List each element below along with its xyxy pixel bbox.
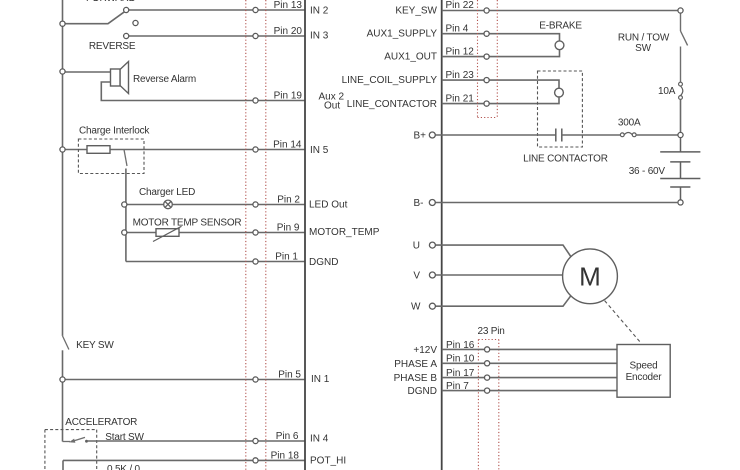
contact FORWARD: [124, 7, 129, 12]
svg-text:23 Pin: 23 Pin: [478, 326, 505, 337]
svg-text:MOTOR_TEMP: MOTOR_TEMP: [309, 227, 380, 238]
junction B+ bus: [678, 132, 683, 137]
svg-text:KEY_SW: KEY_SW: [395, 6, 437, 17]
svg-text:Pin 10: Pin 10: [446, 354, 475, 365]
svg-text:Pin 17: Pin 17: [446, 368, 475, 379]
svg-text:Pin 22: Pin 22: [446, 0, 475, 11]
svg-text:0.5K / 0: 0.5K / 0: [107, 464, 141, 470]
contactor main contact bars: [556, 129, 562, 142]
svg-text:Reverse Alarm: Reverse Alarm: [133, 74, 196, 85]
svg-text:Pin 21: Pin 21: [446, 93, 475, 104]
pin circle Pin22: [484, 8, 489, 13]
speed encoder box: [617, 345, 670, 398]
connector 23-pin dotted box lower: [478, 340, 498, 470]
svg-text:ACCELERATOR: ACCELERATOR: [65, 417, 137, 428]
switch RUN/TOW: [681, 13, 688, 82]
svg-text:B+: B+: [413, 131, 426, 142]
pin circle Pin16: [485, 347, 490, 352]
motor M: [563, 249, 618, 304]
pin circle Pin20: [253, 33, 258, 38]
LED D1 Charger LED: [164, 200, 173, 209]
wire IN3 Pin20: [129, 35, 305, 37]
svg-text:+12V: +12V: [413, 345, 437, 356]
switch Start SW: [63, 437, 86, 441]
svg-text:FORWARD: FORWARD: [86, 0, 136, 4]
pin circle Pin14: [253, 147, 258, 152]
svg-text:Pin 1: Pin 1: [275, 252, 298, 263]
svg-text:DGND: DGND: [309, 257, 338, 268]
node B- left bus: [62, 0, 64, 442]
svg-text:Pin 14: Pin 14: [273, 140, 302, 151]
svg-text:IN 3: IN 3: [310, 31, 329, 42]
svg-text:DGND: DGND: [408, 386, 437, 397]
pin circle Pin9: [253, 230, 258, 235]
switch KEY SW lever: [63, 336, 69, 350]
svg-text:Pin 18: Pin 18: [271, 450, 300, 461]
svg-text:LINE_COIL_SUPPLY: LINE_COIL_SUPPLY: [342, 75, 438, 86]
svg-text:KEY SW: KEY SW: [76, 340, 114, 351]
svg-text:36 - 60V: 36 - 60V: [629, 166, 666, 177]
wire B+ to battery: [636, 134, 680, 136]
pin circle Pin6: [253, 438, 258, 443]
svg-text:LINE CONTACTOR: LINE CONTACTOR: [523, 154, 608, 165]
pin circle Pin18: [253, 458, 258, 463]
wire KEY_SW Pin22: [442, 10, 681, 12]
junction bus-alarm: [60, 69, 65, 74]
svg-text:Pin 7: Pin 7: [446, 381, 469, 392]
wire B-: [435, 202, 678, 204]
svg-text:Out: Out: [324, 101, 340, 112]
wire POT_HI Pin18: [63, 459, 305, 461]
pin circle Pin2: [253, 202, 258, 207]
coil E-BRAKE: [555, 41, 564, 50]
wire AUX1_SUPPLY Pin4: [442, 34, 560, 41]
svg-text:LINE_CONTACTOR: LINE_CONTACTOR: [347, 99, 437, 110]
switch charge interlock lever: [124, 150, 127, 167]
svg-text:Encoder: Encoder: [626, 372, 663, 383]
contact REVERSE: [124, 33, 129, 38]
svg-text:B-: B-: [414, 198, 424, 209]
pin circle Pin5: [253, 377, 258, 382]
fuse 10A: [679, 82, 683, 99]
pin circle Pin12: [484, 54, 489, 59]
svg-text:M: M: [579, 262, 601, 292]
svg-text:POT_HI: POT_HI: [310, 456, 346, 467]
arrowhead start sw: [69, 439, 75, 443]
svg-text:Pin 5: Pin 5: [278, 370, 301, 381]
svg-text:V: V: [413, 271, 420, 282]
wire V phase: [435, 274, 562, 276]
svg-text:300A: 300A: [618, 117, 641, 128]
wire IN4 Pin6: [87, 440, 306, 442]
wire bus seg5: [62, 350, 64, 379]
wire B+ left: [435, 134, 555, 136]
thermistor RT1 motor temp sensor: [153, 226, 182, 241]
line contactor dashed box: [538, 71, 583, 147]
svg-text:REVERSE: REVERSE: [89, 41, 136, 52]
terminal V: [429, 272, 435, 278]
svg-text:AUX1_SUPPLY: AUX1_SUPPLY: [367, 29, 438, 40]
svg-text:RUN / TOW: RUN / TOW: [618, 33, 670, 44]
svg-text:SW: SW: [635, 43, 651, 54]
svg-text:Pin 12: Pin 12: [446, 46, 475, 57]
wire DGND Pin7: [442, 390, 617, 392]
pin circle Pin7: [485, 388, 490, 393]
svg-text:Charge Interlock: Charge Interlock: [79, 125, 150, 136]
wire bus seg4: [62, 150, 64, 336]
svg-text:Pin 20: Pin 20: [274, 26, 303, 37]
wire PHASE A Pin10: [442, 362, 617, 364]
svg-text:W: W: [411, 302, 421, 313]
svg-text:Pin 16: Pin 16: [446, 340, 475, 351]
pin circle Pin19: [253, 98, 258, 103]
svg-text:Charger LED: Charger LED: [139, 187, 195, 198]
wire IN1 Pin5: [63, 379, 306, 381]
svg-text:10A: 10A: [658, 86, 676, 97]
svg-text:E-BRAKE: E-BRAKE: [539, 20, 582, 31]
node LED tap: [122, 202, 127, 207]
svg-text:Pin 9: Pin 9: [277, 223, 300, 234]
pin circle Pin21: [484, 101, 489, 106]
controller right edge: [441, 0, 443, 470]
terminal B+: [429, 132, 435, 138]
pin circle Pin23: [484, 78, 489, 83]
pin circle Pin4: [484, 31, 489, 36]
junction B- battery: [678, 200, 683, 205]
svg-text:Pin 2: Pin 2: [277, 195, 300, 206]
svg-text:U: U: [413, 241, 420, 252]
wire AUX1_OUT Pin12: [442, 50, 560, 57]
terminal B-: [429, 200, 435, 206]
svg-text:PHASE B: PHASE B: [394, 373, 438, 384]
wire LED branch vertical: [125, 169, 127, 262]
wire W phase: [435, 296, 570, 306]
svg-text:PHASE A: PHASE A: [394, 359, 437, 370]
svg-text:AUX1_OUT: AUX1_OUT: [384, 52, 437, 63]
pin circle Pin17: [485, 375, 490, 380]
node temp tap: [122, 230, 127, 235]
pin circle Pin1: [253, 259, 258, 264]
terminal U: [429, 242, 435, 248]
wire B+ right: [562, 134, 621, 136]
switch FWD/REV lever: [65, 12, 124, 24]
coil line contactor: [555, 88, 564, 97]
wire bus seg2: [62, 24, 64, 72]
connector 23-pin dotted box upper: [478, 0, 498, 118]
svg-text:MOTOR TEMP SENSOR: MOTOR TEMP SENSOR: [133, 218, 242, 229]
junction bus-interlock: [60, 147, 65, 152]
wire bus seg3: [62, 72, 64, 150]
wire alarm feed: [63, 71, 111, 73]
wire PHASE B Pin17: [442, 377, 617, 379]
svg-text:Pin 4: Pin 4: [446, 23, 469, 34]
wire alarm return: [101, 82, 305, 101]
charge interlock dashed box: [78, 139, 144, 174]
controller left edge: [304, 0, 306, 470]
svg-text:Start SW: Start SW: [105, 432, 144, 443]
connector 35-pin dotted line left: [245, 0, 247, 470]
wire MOTOR_TEMP Pin9: [124, 232, 305, 234]
pin circle Pin13: [253, 7, 258, 12]
junction bus-FWD: [60, 21, 65, 26]
dashed link motor to encoder: [605, 301, 641, 343]
battery 36-60V: [660, 138, 700, 200]
wire LED Out Pin2: [124, 204, 305, 206]
fuse 300A: [620, 133, 636, 137]
speaker LS1 Reverse Alarm: [111, 62, 129, 94]
terminal W: [429, 303, 435, 309]
wire fuse to B+: [680, 99, 682, 135]
resistor charge interlock: [65, 146, 305, 154]
junction key_sw: [678, 8, 683, 13]
svg-text:Speed: Speed: [630, 360, 658, 371]
svg-text:IN 1: IN 1: [311, 374, 330, 385]
wire U phase: [435, 245, 570, 256]
svg-text:Pin 23: Pin 23: [446, 70, 475, 81]
potentiometer box 0.5K: [63, 460, 305, 470]
connector 35-pin dotted line right: [265, 0, 267, 470]
svg-text:IN 2: IN 2: [310, 6, 329, 17]
wire IN2 Pin13: [129, 9, 305, 11]
wire DGND Pin1: [126, 261, 305, 263]
svg-text:IN 4: IN 4: [310, 434, 329, 445]
svg-text:Pin 6: Pin 6: [276, 431, 299, 442]
svg-text:LED Out: LED Out: [309, 200, 348, 211]
junction bus-IN1: [60, 377, 65, 382]
wire bus seg1: [62, 0, 64, 24]
wire LINE_COIL_SUPPLY Pin23: [442, 80, 559, 88]
svg-text:Pin 13: Pin 13: [274, 0, 303, 11]
accelerator dashed box: [45, 430, 97, 470]
svg-text:Pin 19: Pin 19: [274, 91, 303, 102]
svg-text:IN 5: IN 5: [310, 145, 329, 156]
node start sw contact: [85, 440, 88, 443]
contact center-off: [133, 20, 138, 25]
wire bus seg6: [62, 380, 64, 442]
pin circle Pin10: [485, 361, 490, 366]
wire +12V Pin16: [442, 348, 617, 350]
wire LINE_CONTACTOR Pin21: [442, 97, 559, 104]
